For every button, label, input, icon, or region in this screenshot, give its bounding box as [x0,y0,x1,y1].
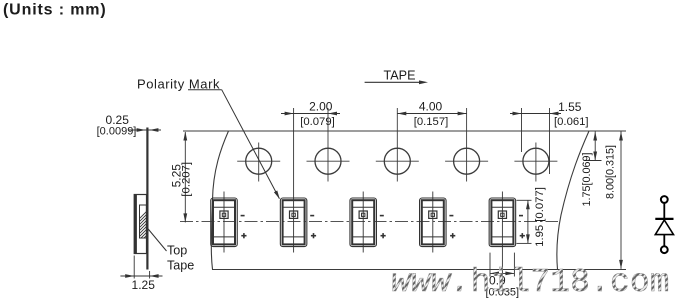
svg-text:[0.0099]: [0.0099] [97,126,137,138]
svg-text:8.00[0.315]: 8.00[0.315] [605,145,617,199]
svg-text:(Units : mm): (Units : mm) [3,2,107,19]
sprocket hole H5 [514,143,557,182]
svg-text:Top: Top [167,244,187,258]
left break line [211,131,228,270]
svg-text:1.25: 1.25 [132,278,156,292]
dimension 5.25 [184,132,186,222]
tape top edge [183,130,626,132]
TAPE direction arrow [365,81,424,83]
polarity leader line [188,90,279,199]
svg-text:[0.061]: [0.061] [554,116,589,128]
side view: carrier tape + top tape edge [146,128,148,270]
pocket P2 [280,108,316,253]
top tape label leader [147,227,167,251]
side view: pocket [134,195,146,254]
pocket P3 [350,192,386,253]
dimension 4.00 [397,113,466,115]
svg-text:4.00: 4.00 [419,100,443,114]
diode D1 [655,196,673,253]
right break line [557,131,589,270]
dimension 0.9 [490,253,514,277]
sprocket hole H3 [376,108,419,182]
dimension 1.25 [120,256,162,279]
sprocket hole H4 [445,108,488,182]
sprocket hole H1 [237,143,280,182]
svg-text:2.00: 2.00 [309,100,333,114]
svg-text:[0.157]: [0.157] [414,116,449,128]
dimension 2.00 [281,113,340,115]
svg-text:www.hil718.com: www.hil718.com [391,264,670,301]
dimension 1.95 [517,200,532,243]
tape bottom edge [212,269,626,271]
pocket P4 [420,192,456,253]
dimension 1.75 [585,132,602,161]
sprocket hole H2 [307,108,350,182]
svg-text:Tape: Tape [167,258,194,272]
svg-text:1.75[0.069]: 1.75[0.069] [581,152,593,206]
svg-text:[0.079]: [0.079] [300,116,335,128]
pocket centerline (dash-dot) [180,220,558,222]
pocket P1 [211,192,247,253]
svg-text:[0.207]: [0.207] [181,162,193,197]
svg-text:1.95 [0.077]: 1.95 [0.077] [534,187,546,247]
svg-text:TAPE: TAPE [384,69,416,83]
pocket P5 [489,192,525,281]
side view: component (hatched) [130,198,160,270]
dimension 1.55 [510,108,561,174]
dimension 8.00 [620,132,622,269]
svg-text:1.55: 1.55 [558,100,582,114]
svg-text:Polarity Mark: Polarity Mark [137,76,220,91]
